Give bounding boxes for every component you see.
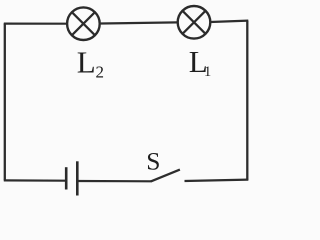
wire: top right segment	[210, 21, 248, 22]
wire: bottom left segment	[4, 179, 66, 182]
battery positive plate (long)	[76, 161, 79, 195]
switch S blade (open)	[151, 170, 180, 182]
svg-text:2: 2	[96, 63, 105, 82]
svg-text:1: 1	[204, 64, 211, 80]
wire: top left segment	[4, 23, 68, 25]
wire: bottom middle segment (battery to switch)	[77, 180, 151, 183]
wire: left vertical	[4, 23, 6, 180]
wire: right vertical	[246, 21, 248, 181]
battery negative plate (short)	[65, 167, 68, 189]
wire: top middle segment	[101, 22, 178, 23]
lamp L1	[178, 6, 211, 39]
wire: bottom right segment	[185, 180, 249, 181]
svg-text:S: S	[146, 146, 160, 175]
svg-text:L: L	[77, 44, 96, 79]
lamp L2	[67, 7, 100, 40]
